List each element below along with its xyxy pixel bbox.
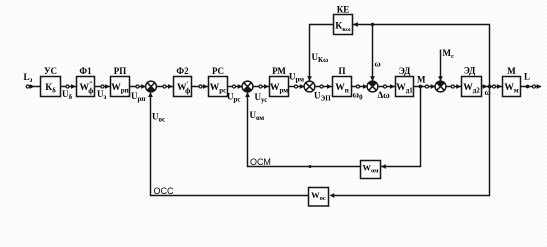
- wire ОСС line Wос to S1: [151, 93, 309, 196]
- wire ω node to КЕ (top line): [353, 25, 490, 87]
- svg-text:Wп: Wп: [335, 83, 349, 95]
- svg-text:УС: УС: [44, 66, 57, 76]
- node circle output: [532, 85, 535, 88]
- arrow into S2: [238, 84, 243, 89]
- svg-text:ОСС: ОСС: [154, 186, 175, 196]
- node circle Uрс: [232, 85, 235, 88]
- block ЭД2 (W_д2): [462, 77, 482, 97]
- node circle ω0: [356, 85, 359, 88]
- junction ω node: [488, 85, 492, 89]
- block М (W_м): [503, 77, 521, 97]
- svg-text:UКω: UКω: [312, 52, 329, 64]
- node circle after S4: [383, 85, 386, 88]
- wire S4-ЭД1: [378, 86, 396, 88]
- svg-text:Uз: Uз: [97, 89, 107, 101]
- node circle after S5: [451, 85, 454, 88]
- arrow into Wом: [381, 164, 386, 169]
- arrow into Ф1: [71, 84, 76, 89]
- arrow into ЭД1: [390, 84, 395, 89]
- svg-text:ω: ω: [375, 59, 381, 69]
- svg-text:Δω: Δω: [378, 90, 391, 100]
- svg-text:Uос: Uос: [152, 112, 165, 124]
- arrow into S5: [431, 84, 436, 89]
- svg-text:М: М: [507, 66, 516, 76]
- block УС (K_δ): [41, 77, 61, 97]
- svg-text:Uрс: Uрс: [227, 92, 241, 104]
- arrow into Wос: [330, 193, 335, 198]
- node circle after M: [425, 85, 428, 88]
- svg-text:Ккω: Ккω: [335, 22, 351, 34]
- node circle Uрм: [294, 85, 297, 88]
- wire ЭД1-S5: [414, 86, 436, 88]
- svg-text:Ф2: Ф2: [176, 66, 189, 76]
- svg-text:Uрп: Uрп: [131, 91, 145, 103]
- svg-text:Uом: Uом: [250, 110, 265, 122]
- arrow into S3 top: [307, 76, 312, 81]
- svg-text:Ф1: Ф1: [79, 66, 92, 76]
- wire УС-Ф1: [61, 86, 77, 88]
- svg-text:Мс: Мс: [443, 48, 455, 60]
- svg-text:UЭП: UЭП: [314, 91, 331, 103]
- block РМ (W_рм): [270, 77, 289, 97]
- svg-text:Uδ: Uδ: [62, 89, 73, 101]
- wire ω node down to ОСС line: [334, 87, 490, 196]
- wire Мс input down to S5: [440, 50, 442, 81]
- arrow into S4: [363, 84, 368, 89]
- svg-text:ОСМ: ОСМ: [250, 157, 271, 167]
- svg-text:W″ф: W″ф: [80, 81, 94, 96]
- block Wос: [309, 188, 329, 207]
- svg-text:РМ: РМ: [272, 66, 286, 76]
- svg-text:Wом: Wом: [362, 163, 379, 175]
- node circle Uрп: [136, 85, 139, 88]
- arrow into S5 top: [438, 76, 443, 81]
- block КЕ (К_кω): [334, 15, 353, 35]
- block РС (W_рс): [209, 77, 228, 97]
- arrow into S4 top: [370, 76, 375, 81]
- junction L node: [526, 85, 530, 89]
- node circle Uз: [101, 85, 104, 88]
- svg-text:Wос: Wос: [311, 190, 326, 202]
- arrow output: [537, 84, 542, 89]
- summing junction S5 (Мс input): [435, 81, 446, 92]
- svg-text:Wрм: Wрм: [270, 83, 288, 95]
- wire РС-S2: [228, 86, 243, 88]
- node circle after S2: [259, 85, 262, 88]
- svg-text:М: М: [417, 75, 426, 85]
- block Ф2 (W_ф′): [174, 77, 192, 97]
- arrow into М: [497, 84, 502, 89]
- svg-text:Wд1: Wд1: [396, 83, 413, 95]
- svg-text:П: П: [338, 66, 345, 76]
- node circle after S1: [163, 85, 166, 88]
- block П (W_п): [333, 77, 352, 97]
- summing junction S2 (ОСМ feedback): [242, 81, 253, 92]
- wire M node down to ОСМ line: [381, 87, 421, 167]
- svg-text:ЭД: ЭД: [399, 66, 411, 76]
- svg-text:Wрп: Wрп: [111, 83, 128, 95]
- svg-text:W′ф: W′ф: [177, 81, 190, 96]
- wire Ф1-РП: [95, 86, 111, 88]
- wire S2-РМ: [253, 86, 270, 88]
- arrow into РМ: [264, 84, 269, 89]
- junction M node: [419, 85, 423, 89]
- svg-text:РП: РП: [114, 66, 127, 76]
- arrow into Ф2: [168, 84, 173, 89]
- wire РМ-S3: [289, 86, 305, 88]
- node circle UЭП: [320, 85, 323, 88]
- wire ОСМ line Wом to S2: [248, 93, 361, 167]
- arrow into ω junction: [483, 84, 488, 89]
- arrow into S1 bottom: [148, 92, 153, 97]
- wire S5-ЭД2: [446, 86, 462, 88]
- wire Ф2-РС: [192, 86, 209, 88]
- svg-text:Uус: Uус: [255, 92, 268, 104]
- arrow into РП: [105, 84, 110, 89]
- summing junction S4 (ω feedback): [367, 81, 378, 92]
- wire РП-S1: [130, 86, 146, 88]
- arrow into ЭД2: [456, 84, 461, 89]
- svg-text:Lз: Lз: [24, 72, 33, 84]
- wire output L: [521, 86, 542, 88]
- svg-text:РС: РС: [212, 66, 224, 76]
- arrow into S3: [300, 84, 305, 89]
- node circle after Ф2: [199, 85, 202, 88]
- svg-text:Wрс: Wрс: [210, 83, 227, 95]
- svg-text:Wм: Wм: [504, 83, 519, 95]
- wire S1-Ф2: [156, 86, 173, 88]
- wire КЕ output UКω down to S3: [310, 25, 334, 81]
- arrow into РС: [203, 84, 208, 89]
- summing junction S3 (UКω input): [304, 81, 315, 92]
- svg-text:Кδ: Кδ: [45, 83, 56, 95]
- block ЭД1 (W_д1): [396, 77, 414, 97]
- svg-text:Wд2: Wд2: [463, 83, 480, 95]
- svg-text:ω0: ω0: [353, 90, 364, 102]
- svg-text:ЭД: ЭД: [464, 66, 476, 76]
- svg-text:КЕ: КЕ: [337, 5, 350, 15]
- node circle input: [26, 85, 29, 88]
- svg-text:Uрм: Uрм: [289, 72, 304, 84]
- arrow into S1: [141, 84, 146, 89]
- wire ω branch down to S4: [372, 25, 374, 81]
- junction dot on ОСМ line: [309, 165, 312, 168]
- node circle Uδ: [66, 85, 69, 88]
- arrow input: [30, 84, 35, 89]
- junction dot ω branch: [371, 23, 374, 26]
- node circle after ω node: [492, 85, 495, 88]
- wire П-S4: [352, 86, 368, 88]
- block Wом: [361, 161, 381, 179]
- arrow into S2 bottom: [245, 92, 250, 97]
- arrow into КЕ: [353, 22, 358, 27]
- block Ф1 (W_ф″): [77, 77, 95, 97]
- arrow into П: [327, 84, 332, 89]
- block РП (W_рп): [111, 77, 130, 97]
- wire ЭД2-М: [482, 86, 503, 88]
- summing junction S1 (ОСС feedback): [146, 81, 157, 92]
- wire input Lз: [26, 86, 41, 88]
- wire S3-П: [315, 86, 333, 88]
- svg-text:L: L: [524, 72, 530, 82]
